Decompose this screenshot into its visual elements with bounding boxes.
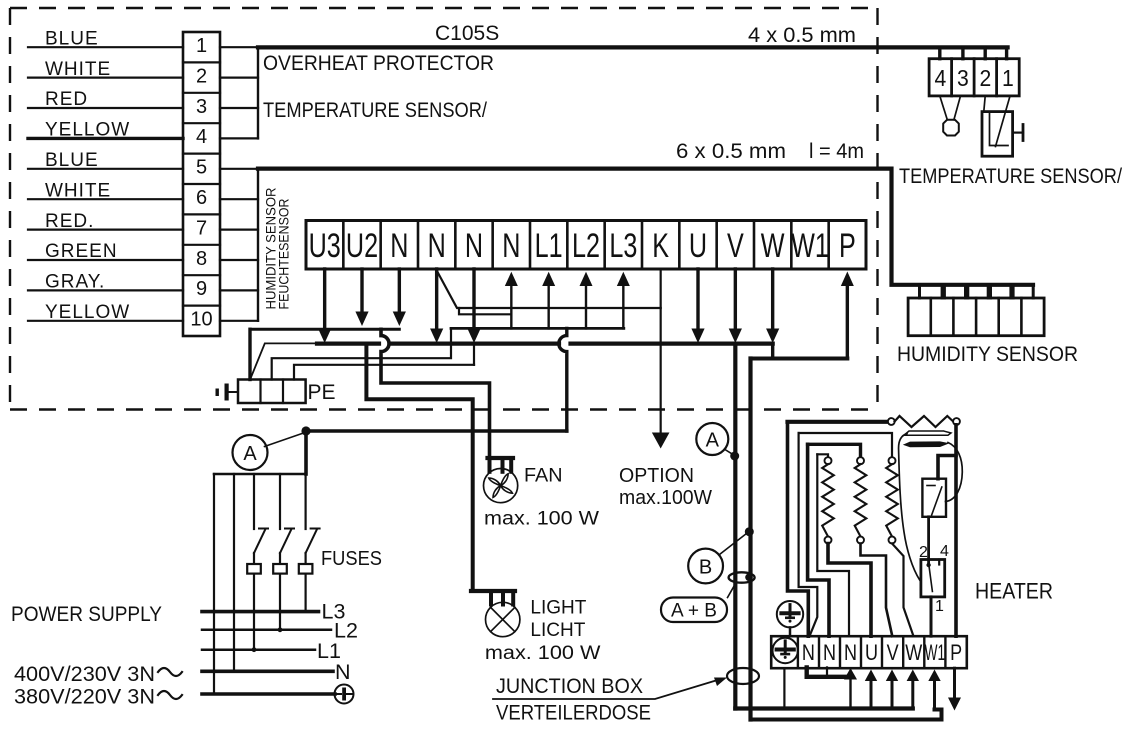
svg-text:HUMIDITY SENSOR: HUMIDITY SENSOR	[897, 343, 1078, 366]
svg-text:FEUCHTESENSOR: FEUCHTESENSOR	[275, 199, 291, 310]
svg-text:8: 8	[196, 248, 207, 270]
svg-text:max. 100 W: max. 100 W	[484, 507, 599, 529]
svg-text:4: 4	[940, 543, 949, 560]
svg-text:2: 2	[919, 544, 928, 561]
svg-text:POWER SUPPLY: POWER SUPPLY	[11, 602, 162, 626]
svg-text:A + B: A + B	[671, 601, 717, 622]
svg-text:U3: U3	[309, 227, 341, 265]
svg-text:N: N	[465, 227, 483, 265]
svg-text:1: 1	[196, 35, 207, 57]
svg-text:W: W	[761, 227, 785, 265]
svg-text:YELLOW: YELLOW	[45, 120, 130, 141]
svg-text:N: N	[390, 227, 408, 265]
svg-text:HEATER: HEATER	[975, 579, 1053, 604]
svg-text:L3: L3	[609, 227, 637, 265]
svg-text:V: V	[887, 641, 900, 665]
svg-text:A: A	[243, 443, 257, 465]
svg-text:N: N	[802, 641, 815, 665]
svg-text:K: K	[652, 227, 669, 265]
svg-text:OPTION: OPTION	[619, 465, 694, 487]
svg-text:LIGHT: LIGHT	[530, 596, 586, 618]
svg-text:3: 3	[196, 96, 207, 118]
svg-text:400V/230V 3N: 400V/230V 3N	[14, 663, 155, 686]
svg-text:P: P	[950, 641, 962, 665]
svg-text:LICHT: LICHT	[530, 619, 585, 641]
svg-text:U: U	[865, 641, 878, 665]
svg-text:FUSES: FUSES	[321, 547, 382, 570]
svg-text:V: V	[727, 227, 744, 265]
svg-text:GRAY.: GRAY.	[45, 272, 105, 293]
svg-text:N: N	[335, 660, 351, 684]
svg-text:WHITE: WHITE	[45, 180, 111, 201]
svg-text:FAN: FAN	[524, 464, 563, 486]
svg-text:4: 4	[935, 65, 947, 91]
svg-text:RED: RED	[45, 89, 88, 110]
svg-text:W: W	[905, 641, 922, 665]
svg-text:max. 100 W: max. 100 W	[485, 642, 601, 664]
svg-text:9: 9	[196, 278, 207, 300]
svg-text:GREEN: GREEN	[45, 241, 118, 262]
svg-text:max.100W: max.100W	[619, 487, 712, 509]
svg-text:TEMPERATURE SENSOR/: TEMPERATURE SENSOR/	[899, 165, 1122, 188]
svg-text:N: N	[502, 227, 520, 265]
svg-text:U: U	[689, 227, 707, 265]
svg-text:U2: U2	[346, 227, 378, 265]
svg-text:L2: L2	[572, 227, 600, 265]
svg-text:N: N	[823, 641, 836, 665]
svg-text:W1: W1	[925, 640, 945, 665]
svg-text:1: 1	[935, 598, 944, 615]
svg-text:6 x 0.5 mm: 6 x 0.5 mm	[676, 140, 786, 163]
svg-text:BLUE: BLUE	[45, 150, 99, 171]
svg-text:A: A	[706, 430, 720, 452]
svg-text:l = 4m: l = 4m	[809, 140, 864, 163]
svg-text:380V/220V 3N: 380V/220V 3N	[14, 686, 155, 709]
svg-text:C105S: C105S	[435, 22, 499, 45]
svg-text:YELLOW: YELLOW	[45, 302, 130, 323]
svg-text:PE: PE	[308, 381, 336, 404]
svg-text:P: P	[839, 227, 856, 265]
svg-text:3: 3	[957, 65, 969, 91]
svg-text:N: N	[428, 227, 446, 265]
svg-text:RED.: RED.	[45, 211, 94, 232]
svg-text:N: N	[844, 641, 857, 665]
svg-text:W1: W1	[791, 227, 829, 265]
svg-text:BLUE: BLUE	[45, 28, 99, 49]
svg-text:VERTEILERDOSE: VERTEILERDOSE	[496, 702, 651, 725]
svg-text:2: 2	[980, 65, 992, 91]
svg-text:1: 1	[1002, 65, 1014, 91]
svg-text:OVERHEAT PROTECTOR: OVERHEAT PROTECTOR	[263, 52, 494, 75]
svg-text:4 x 0.5 mm: 4 x 0.5 mm	[748, 24, 856, 47]
svg-text:2: 2	[196, 65, 207, 87]
svg-text:L1: L1	[535, 227, 563, 265]
svg-text:7: 7	[196, 217, 207, 239]
svg-text:6: 6	[196, 187, 207, 209]
svg-text:5: 5	[196, 157, 207, 179]
svg-text:B: B	[699, 557, 712, 579]
svg-text:WHITE: WHITE	[45, 59, 111, 80]
svg-text:TEMPERATURE SENSOR/: TEMPERATURE SENSOR/	[263, 99, 487, 122]
svg-text:4: 4	[196, 126, 207, 148]
svg-text:10: 10	[190, 309, 212, 331]
svg-text:JUNCTION BOX: JUNCTION BOX	[496, 675, 643, 698]
